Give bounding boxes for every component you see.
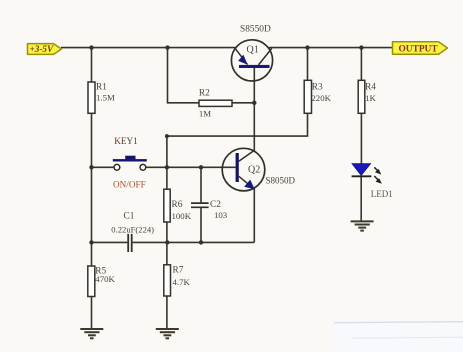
svg-text:4.7K: 4.7K	[173, 277, 191, 287]
svg-text:LED1: LED1	[371, 189, 393, 199]
svg-text:KEY1: KEY1	[114, 136, 138, 146]
svg-text:0.22uF(224): 0.22uF(224)	[111, 224, 154, 234]
svg-text:1.5M: 1.5M	[96, 92, 115, 102]
svg-text:R2: R2	[199, 88, 210, 98]
svg-text:100K: 100K	[172, 211, 192, 221]
svg-text:C2: C2	[210, 200, 221, 210]
svg-text:220K: 220K	[311, 93, 331, 103]
svg-text:103: 103	[214, 210, 228, 220]
svg-text:1M: 1M	[199, 109, 211, 119]
svg-text:1K: 1K	[365, 93, 376, 103]
svg-text:ON/OFF: ON/OFF	[113, 180, 146, 190]
svg-text:470K: 470K	[95, 274, 115, 284]
svg-text:S8050D: S8050D	[266, 176, 296, 186]
svg-text:R3: R3	[312, 83, 323, 93]
svg-text:+3-5V: +3-5V	[30, 44, 54, 54]
svg-text:S8550D: S8550D	[240, 25, 271, 35]
svg-text:Q1: Q1	[247, 45, 259, 56]
svg-text:R7: R7	[173, 266, 184, 276]
svg-text:OUTPUT: OUTPUT	[399, 44, 439, 54]
svg-text:R6: R6	[172, 200, 183, 210]
svg-text:C1: C1	[124, 211, 135, 221]
svg-text:R1: R1	[96, 82, 107, 92]
svg-text:Q2: Q2	[248, 165, 260, 176]
svg-text:R4: R4	[365, 83, 376, 93]
